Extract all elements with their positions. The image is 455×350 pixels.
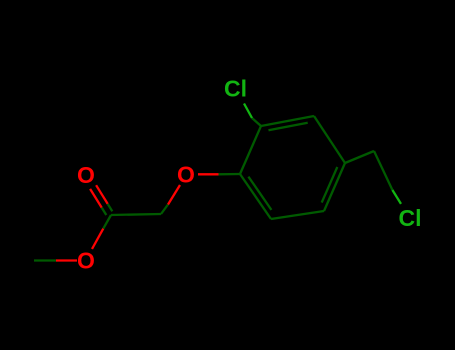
- svg-text:O: O: [77, 248, 95, 274]
- svg-text:Cl: Cl: [224, 76, 247, 102]
- wire CH3 to ester O (carbon half, dark green): [34, 259, 56, 261]
- benzene ring edge C2-C3: [261, 116, 314, 126]
- wire C2 to Cl top (carbon half, dark green): [252, 118, 261, 126]
- wire C4 to CH2b (carbon, dark green): [345, 151, 374, 163]
- double bond C=O line 2 (red part): [96, 185, 108, 204]
- wire ether O to ring C1 (oxygen half, red): [198, 173, 219, 175]
- double bond C=O line 2 (carbon part): [108, 204, 113, 211]
- wire CH2 to ether O (carbon half, dark green): [161, 205, 168, 215]
- svg-text:Cl: Cl: [399, 205, 422, 231]
- svg-text:O: O: [177, 161, 195, 187]
- benzene inner double bond along C4-C5: [322, 167, 338, 203]
- benzene ring edge C4-C5: [324, 163, 345, 211]
- benzene ring edge C6-C1: [240, 174, 271, 219]
- benzene inner double bond along C6-C1: [248, 177, 271, 210]
- wire ester O to carbonyl C (carbon half, dark green): [103, 215, 111, 229]
- benzene ring edge C3-C4: [314, 116, 345, 163]
- svg-text:O: O: [77, 162, 95, 188]
- wire CH2b to Cl bottom (carbon half, dark green): [374, 151, 392, 190]
- wire carbonyl C to CH2 (carbon, dark green): [111, 214, 161, 215]
- benzene ring edge C5-C6: [271, 211, 324, 219]
- wire ether O to ring C1 (carbon half, dark green): [219, 173, 241, 176]
- wire ester O to carbonyl C (oxygen half, red): [92, 229, 103, 249]
- double bond C=O line 1 (red part): [90, 189, 102, 208]
- wire C2 to Cl top (chlorine half, bright green): [244, 104, 252, 119]
- wire CH2b to Cl bottom (chlorine half, bright green): [392, 190, 401, 204]
- wire CH2 to ether O (oxygen half, red): [168, 185, 180, 205]
- benzene inner double bond along C2-C3: [269, 123, 308, 130]
- wire CH3 to ester O (oxygen half, red): [56, 259, 77, 261]
- double bond C=O line 1 (carbon part): [102, 208, 107, 215]
- benzene ring edge C1-C2: [240, 126, 261, 174]
